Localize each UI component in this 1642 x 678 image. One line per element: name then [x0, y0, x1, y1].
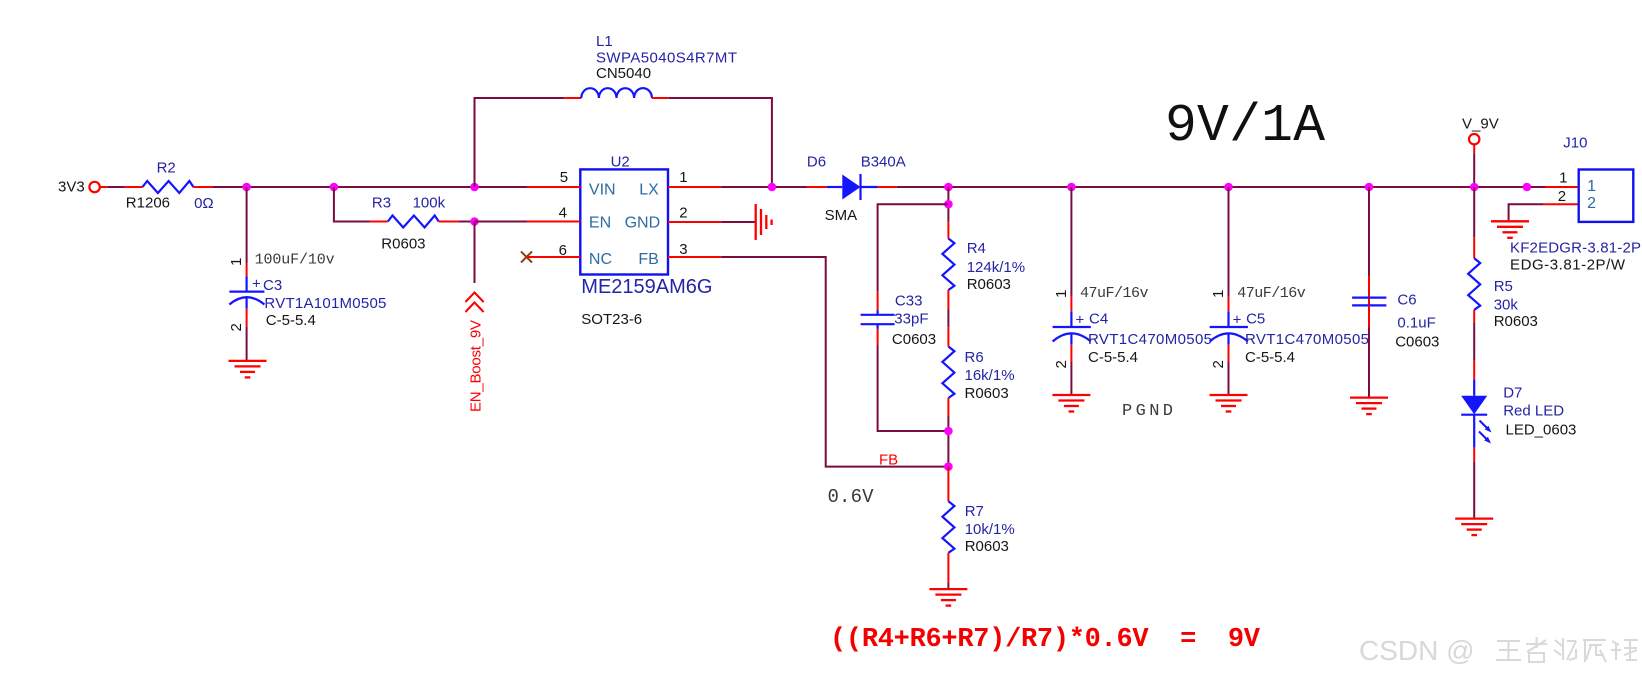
label SMA [825, 207, 858, 224]
pin 1 R2 [124, 186, 142, 188]
pin 1 R6 [947, 327, 949, 346]
svg-text:100uF/10v: 100uF/10v [255, 252, 335, 269]
svg-text:47uF/16v: 47uF/16v [1080, 285, 1149, 302]
label R0603 R7 [965, 538, 1009, 555]
net label FB [879, 452, 898, 469]
value 16k/1% [965, 367, 1015, 384]
svg-text:C6: C6 [1397, 291, 1416, 308]
label R1206 [126, 195, 170, 212]
svg-text:L1: L1 [596, 33, 613, 50]
capacitor C3 [229, 276, 264, 309]
label pin2 C4 [1053, 360, 1070, 368]
label L1 [596, 33, 613, 50]
pin name 2 J10 [1587, 195, 1596, 212]
svg-text:+: + [1233, 312, 1242, 329]
wire main rail left [213, 186, 527, 188]
op-amp U2 body [580, 169, 668, 274]
svg-text:30k: 30k [1494, 297, 1519, 314]
inductor L1 [581, 88, 652, 98]
label R0603 R3 [381, 235, 425, 252]
svg-text:1: 1 [1559, 170, 1567, 187]
pin name FB [638, 251, 658, 268]
wire R5 branch [1473, 187, 1475, 237]
label R0603 R4 [967, 276, 1011, 293]
svg-text:0.6V: 0.6V [828, 486, 875, 508]
wire D7 to ground [1473, 462, 1475, 519]
label C6 [1397, 291, 1416, 308]
junction C33 bottom [944, 427, 953, 436]
svg-text:R5: R5 [1494, 278, 1513, 295]
pin 2 C5 [1228, 345, 1230, 362]
wire L1 loop right [669, 98, 772, 187]
capacitor C33 [861, 310, 895, 329]
label C5 [1246, 311, 1265, 328]
pin 1 C33 [877, 292, 879, 310]
svg-text:R6: R6 [965, 349, 984, 366]
net label PGND [1122, 402, 1173, 421]
wire R4 to R6 [947, 310, 949, 328]
svg-text:C-5-5.4: C-5-5.4 [1245, 349, 1295, 366]
pin 1 R7 [947, 467, 949, 502]
pin 1 C4 [1070, 296, 1072, 311]
svg-text:C0603: C0603 [892, 331, 936, 348]
svg-text:1: 1 [228, 258, 245, 266]
junction diode out [944, 183, 953, 192]
label R0603 R5 [1494, 313, 1538, 330]
pin 1 L1 [564, 97, 581, 99]
svg-text:PGND: PGND [1122, 402, 1173, 421]
value 0ohm [194, 195, 214, 212]
resistor R5 [1468, 258, 1480, 310]
svg-text:33pF: 33pF [894, 311, 928, 328]
node V_9V [1462, 116, 1499, 133]
label C0603 C6 [1395, 333, 1439, 350]
terminal V_9V [1469, 134, 1479, 144]
watermark CSDN [1359, 635, 1638, 666]
svg-text:NC: NC [589, 251, 612, 268]
pin number 2 [679, 204, 687, 221]
off-page connector EN_Boost_9V [465, 293, 483, 313]
svg-text:RVT1C470M0505: RVT1C470M0505 [1088, 331, 1212, 348]
svg-text:EN_Boost_9V: EN_Boost_9V [468, 320, 485, 412]
label C-5-5.4 C5 [1245, 349, 1295, 366]
svg-text:2: 2 [228, 323, 245, 331]
pin 2 GND stub [668, 221, 721, 223]
capacitor C4 [1053, 311, 1091, 345]
ground D7 [1455, 519, 1493, 536]
label D6 [807, 154, 826, 171]
pin 5 VIN stub [527, 186, 580, 188]
pin 2 R3 [439, 221, 459, 223]
pin name 1 J10 [1587, 178, 1596, 195]
wire GND pin to ground [721, 221, 754, 223]
value 100uF/10v [255, 252, 335, 269]
pin 2 D7 [1473, 448, 1475, 462]
label C-5-5.4 C3 [266, 312, 316, 329]
pin 2 C6 [1368, 305, 1370, 327]
wire 3V3 to R2 [108, 186, 125, 188]
svg-text:D6: D6 [807, 154, 826, 171]
wire C3 branch [246, 187, 248, 264]
label R7 [965, 503, 984, 520]
wire C33 bottom branch [878, 345, 949, 431]
wire L1 loop left [475, 98, 565, 187]
svg-text:2: 2 [1210, 360, 1227, 368]
svg-text:R0603: R0603 [381, 235, 425, 252]
svg-text:LED_0603: LED_0603 [1506, 422, 1577, 439]
LED D7 [1461, 379, 1491, 447]
label CN5040 [596, 65, 651, 82]
value 124k/1% [967, 259, 1025, 276]
value 10k/1% [965, 521, 1015, 538]
svg-text:R7: R7 [965, 503, 984, 520]
svg-text:((R4+R6+R7)/R7)*0.6V = 9V: ((R4+R6+R7)/R7)*0.6V = 9V [830, 625, 1261, 655]
ground C3 [229, 361, 267, 378]
svg-text:R0603: R0603 [1494, 313, 1538, 330]
pin number 3 [679, 241, 687, 258]
svg-text:5: 5 [560, 169, 568, 186]
label C3 [263, 277, 282, 294]
wire main rail right [897, 186, 1545, 188]
ground R7 [929, 589, 967, 606]
pin 2 R7 [947, 553, 949, 583]
pin 1 R3 [370, 221, 388, 223]
wire J10 pin2 to ground [1509, 204, 1544, 220]
label pin2 C3 [228, 323, 245, 331]
junction at R3 tap [330, 183, 339, 192]
svg-text:0Ω: 0Ω [194, 195, 214, 212]
svg-text:D7: D7 [1503, 385, 1522, 402]
svg-text:6: 6 [559, 242, 567, 259]
junction L1 right column [768, 183, 777, 192]
pin number 4 [559, 204, 567, 221]
svg-text:16k/1%: 16k/1% [965, 367, 1015, 384]
pin 3 FB stub [668, 256, 721, 258]
svg-text:J10: J10 [1563, 135, 1587, 152]
formula ((R4+R6+R7)/R7)*0.6V = 9V [830, 625, 1261, 655]
svg-text:ME2159AM6G: ME2159AM6G [581, 276, 712, 298]
ground C5 [1210, 395, 1248, 412]
no-connect X on pin 6 [521, 252, 532, 263]
wire EN to U2 [475, 221, 528, 223]
svg-text:2: 2 [1558, 188, 1566, 205]
svg-text:1: 1 [1053, 290, 1070, 298]
svg-text:+: + [1076, 312, 1085, 329]
terminal 3V3 [89, 182, 99, 192]
pin 1 C6 [1368, 276, 1370, 306]
svg-text:3: 3 [679, 241, 687, 258]
value 0.1uF [1397, 315, 1435, 332]
label C33 [895, 293, 923, 310]
wire C3 to ground [246, 327, 248, 361]
pin name EN [589, 215, 611, 232]
svg-text:C5: C5 [1246, 311, 1265, 328]
svg-text:RVT1A101M0505: RVT1A101M0505 [264, 295, 386, 312]
pin 2 C4 [1070, 345, 1072, 362]
label J10 [1563, 135, 1587, 152]
value 47uF/16v C4 [1080, 285, 1149, 302]
svg-text:C4: C4 [1089, 311, 1108, 328]
svg-text:+: + [252, 276, 261, 293]
value 47uF/16v C5 [1237, 285, 1306, 302]
svg-text:9V/1A: 9V/1A [1165, 96, 1325, 156]
ground right-facing U2 pin2 [756, 204, 772, 240]
pin 1 LX stub [668, 186, 721, 188]
junction C33 tee [944, 200, 953, 209]
label C0603 C33 [892, 331, 936, 348]
pin 1 C5 [1228, 296, 1230, 311]
label R5 [1494, 278, 1513, 295]
value 30k [1494, 297, 1519, 314]
wire R5 to D7 [1473, 323, 1475, 361]
label LED_0603 [1506, 422, 1577, 439]
pin number 1 J10 [1559, 170, 1567, 187]
pin 2 C33 [877, 329, 879, 345]
label pin1 C3 [228, 258, 245, 266]
value Red LED [1503, 403, 1564, 420]
junction EN column [470, 217, 479, 226]
pin 2 J10 stub [1544, 203, 1579, 205]
junction at VIN column [470, 183, 479, 192]
pin 1 J10 stub [1545, 186, 1579, 188]
svg-text:VIN: VIN [589, 181, 616, 198]
label KF2EDGR-3.81-2P [1510, 240, 1641, 257]
pin 2 R5 [1473, 310, 1475, 323]
svg-text:CN5040: CN5040 [596, 65, 651, 82]
svg-text:V_9V: V_9V [1462, 116, 1499, 133]
capacitor C6 [1352, 298, 1386, 306]
pin number 5 [560, 169, 568, 186]
value 33pF [894, 311, 928, 328]
wire feedback tap down [947, 187, 949, 222]
svg-text:SMA: SMA [825, 207, 858, 224]
pin 2 R2 [193, 186, 213, 188]
pin 2 C3 [246, 308, 248, 326]
pin 2 L1 [652, 97, 669, 99]
pin 1 R4 [947, 222, 949, 238]
resistor R7 [942, 501, 954, 553]
wire V_9V down [1473, 153, 1475, 187]
svg-text:C0603: C0603 [1395, 333, 1439, 350]
wire LX to diode [721, 186, 807, 188]
svg-text:B340A: B340A [861, 154, 906, 171]
svg-text:R1206: R1206 [126, 195, 170, 212]
svg-text:EDG-3.81-2P/W: EDG-3.81-2P/W [1510, 257, 1626, 274]
svg-text:U2: U2 [611, 154, 630, 171]
wire C6 branch [1368, 187, 1370, 276]
svg-text:C3: C3 [263, 277, 282, 294]
label ME2159AM6G [581, 276, 712, 298]
svg-text:C-5-5.4: C-5-5.4 [1088, 349, 1138, 366]
pin 6 NC stub [527, 256, 580, 258]
svg-text:R0603: R0603 [967, 276, 1011, 293]
svg-text:C-5-5.4: C-5-5.4 [266, 312, 316, 329]
svg-text:KF2EDGR-3.81-2P: KF2EDGR-3.81-2P [1510, 240, 1641, 257]
label RVT1A101M0505 [264, 295, 386, 312]
label D7 [1503, 385, 1522, 402]
node 3V3 [58, 179, 85, 196]
svg-text:SOT23-6: SOT23-6 [581, 311, 642, 328]
label pin2 C5 [1210, 360, 1227, 368]
net label EN_Boost_9V [468, 320, 485, 412]
svg-text:3V3: 3V3 [58, 179, 85, 196]
pin name LX [639, 181, 659, 198]
pin number 1 [679, 169, 687, 186]
svg-text:SWPA5040S4R7MT: SWPA5040S4R7MT [596, 50, 737, 67]
junction C6 [1365, 183, 1374, 192]
pin number 6 [559, 242, 567, 259]
wire C5 branch [1228, 187, 1230, 296]
wire FB from U2 pin3 [721, 257, 948, 467]
wire R3 to EN column [459, 221, 475, 223]
diode D6 [827, 174, 878, 200]
label pin1 C4 [1053, 290, 1070, 298]
svg-text:CSDN @: CSDN @ [1359, 635, 1475, 666]
svg-text:EN: EN [589, 215, 611, 232]
junction V_9V column [1470, 183, 1479, 192]
svg-text:10k/1%: 10k/1% [965, 521, 1015, 538]
junction C5 [1224, 183, 1233, 192]
label U2 [611, 154, 630, 171]
svg-text:100k: 100k [413, 195, 446, 212]
value B340A [861, 154, 906, 171]
label R2 [157, 160, 176, 177]
svg-text:GND: GND [625, 215, 661, 232]
junction at R2 out [242, 183, 251, 192]
pin name GND [625, 215, 661, 232]
label R3 [372, 195, 391, 212]
pin number 2 J10 [1558, 188, 1566, 205]
svg-text:1: 1 [679, 169, 687, 186]
label pin1 C5 [1210, 290, 1227, 298]
resistor R6 [942, 347, 954, 399]
svg-text:124k/1%: 124k/1% [967, 259, 1025, 276]
connector J10 body [1579, 170, 1634, 222]
pin name VIN [589, 181, 616, 198]
label C-5-5.4 C4 [1088, 349, 1138, 366]
pin 1 D7 [1473, 360, 1475, 379]
svg-text:FB: FB [638, 251, 658, 268]
pin 1 R5 [1473, 237, 1475, 258]
wire EN column down [474, 222, 476, 284]
resistor R3 [388, 216, 439, 228]
label R0603 R6 [965, 385, 1009, 402]
wire R6 to FB node [947, 416, 949, 467]
label SOT23-6 [581, 311, 642, 328]
wire R7 to ground [947, 583, 949, 589]
pin stub terminal 3V3 [100, 186, 108, 188]
svg-text:LX: LX [639, 181, 659, 198]
svg-text:R4: R4 [967, 240, 986, 257]
pin 2 D6 cathode stub [878, 186, 897, 188]
label RVT1C470M0505 C5 [1245, 331, 1369, 348]
label R4 [967, 240, 986, 257]
pin 1 C3 [246, 264, 248, 277]
label SWPA5040S4R7MT [596, 50, 737, 67]
svg-text:0.1uF: 0.1uF [1397, 315, 1435, 332]
label 9V/1A [1165, 96, 1325, 156]
pin 1 D6 anode stub [807, 186, 827, 188]
ground J10 [1491, 221, 1529, 238]
svg-text:2: 2 [1587, 195, 1596, 212]
svg-text:2: 2 [1053, 360, 1070, 368]
svg-text:1: 1 [1210, 290, 1227, 298]
svg-text:R0603: R0603 [965, 538, 1009, 555]
svg-text:RVT1C470M0505: RVT1C470M0505 [1245, 331, 1369, 348]
wire C5 to ground [1228, 362, 1230, 395]
wire C33 top branch [878, 204, 949, 292]
resistor R4 [942, 239, 954, 291]
pin stub terminal V_9V [1473, 145, 1475, 154]
ground C4 [1052, 395, 1090, 412]
svg-text:R3: R3 [372, 195, 391, 212]
pin 2 R4 [947, 290, 949, 310]
junction FB node [944, 462, 953, 471]
svg-text:2: 2 [679, 204, 687, 221]
svg-text:Red LED: Red LED [1503, 403, 1564, 420]
pin 2 R6 [947, 398, 949, 416]
wire C4 to ground [1070, 362, 1072, 395]
label EDG-3.81-2P/W [1510, 257, 1626, 274]
capacitor C5 [1210, 311, 1248, 345]
svg-text:C33: C33 [895, 293, 923, 310]
svg-text:1: 1 [1587, 178, 1596, 195]
svg-text:FB: FB [879, 452, 898, 469]
junction J10 tap [1523, 183, 1532, 192]
wire C4 branch [1070, 187, 1072, 296]
label R6 [965, 349, 984, 366]
label C4 [1089, 311, 1108, 328]
svg-text:4: 4 [559, 204, 567, 221]
svg-text:47uF/16v: 47uF/16v [1237, 285, 1306, 302]
ground C6 [1350, 398, 1388, 415]
resistor R2 [143, 181, 194, 193]
label 0.6V [828, 486, 875, 508]
svg-text:R2: R2 [157, 160, 176, 177]
pin 4 EN stub [527, 221, 580, 223]
wire R3 branch [334, 187, 370, 222]
value 100k [413, 195, 446, 212]
pin name NC [589, 251, 612, 268]
label RVT1C470M0505 C4 [1088, 331, 1212, 348]
junction C4 [1067, 183, 1076, 192]
wire C6 to ground [1368, 328, 1370, 398]
svg-text:R0603: R0603 [965, 385, 1009, 402]
